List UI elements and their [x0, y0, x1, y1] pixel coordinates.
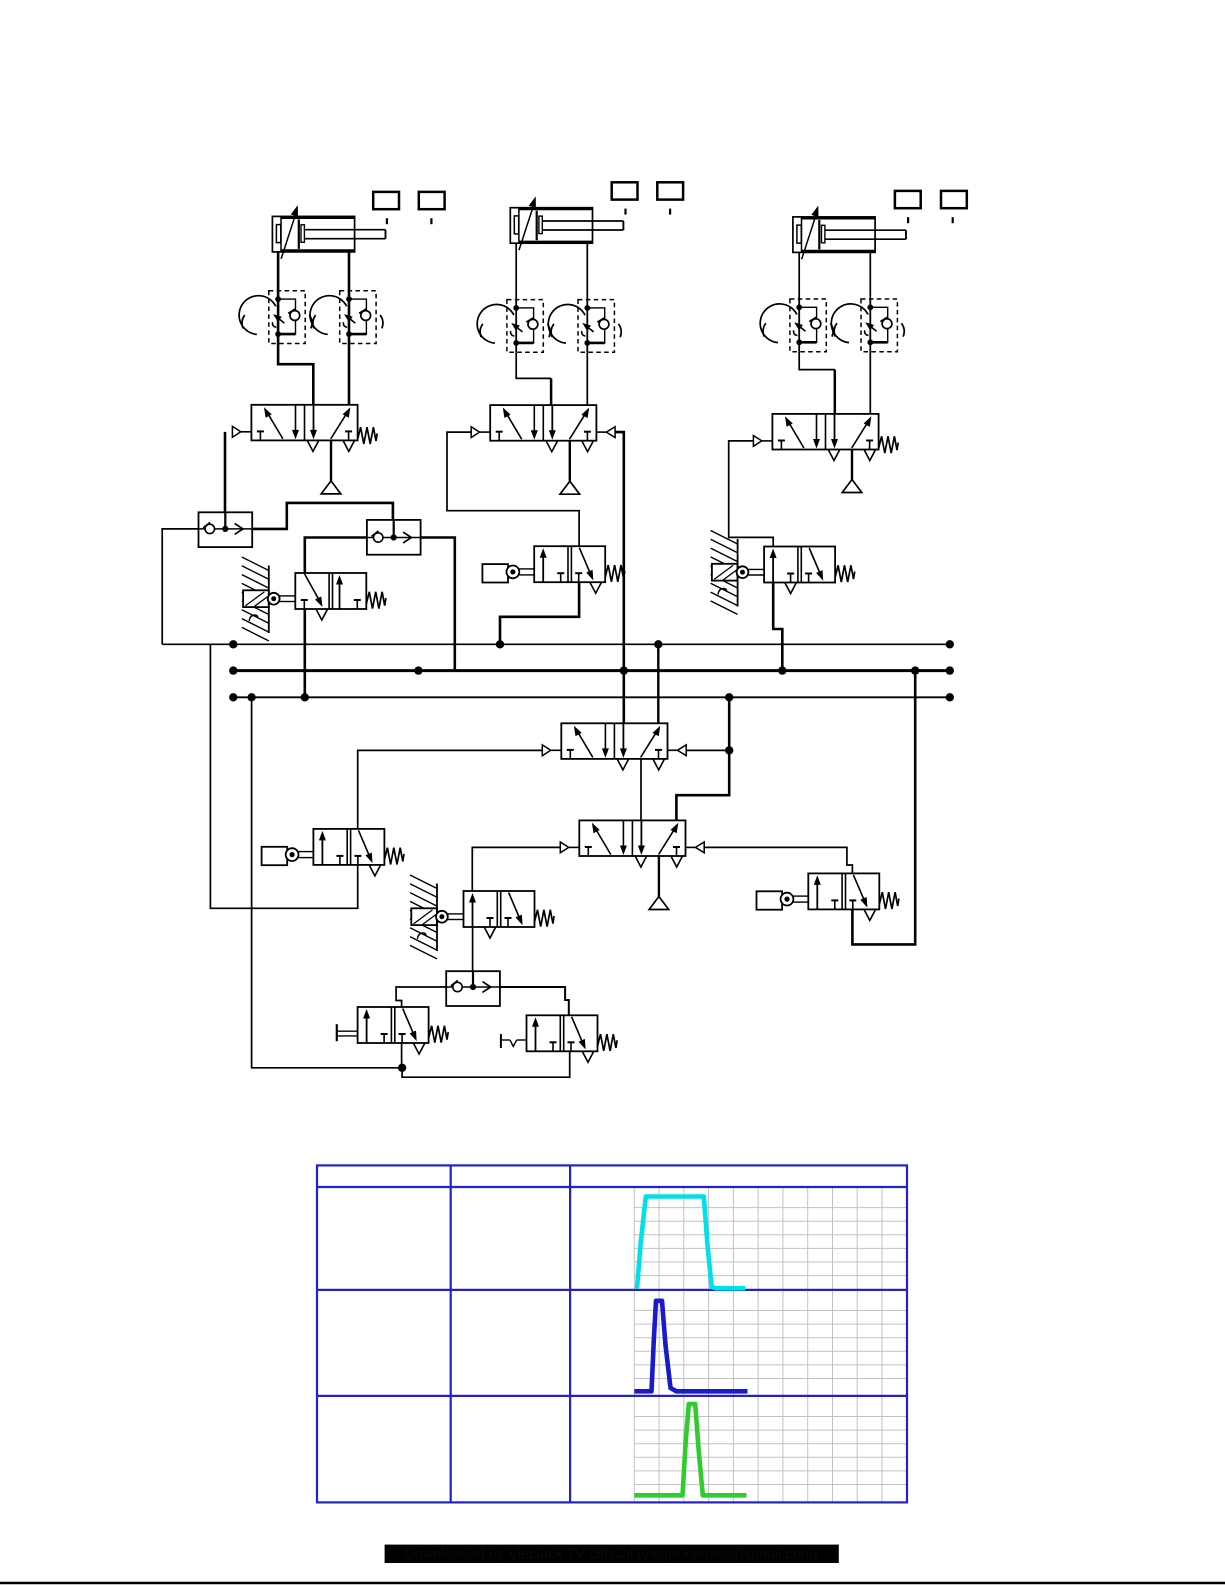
exhaust port valve RS3 — [785, 583, 797, 594]
wire shuttle SH3 left input from valve M1 output — [396, 987, 447, 1007]
plunger actuator valve PS2 — [482, 564, 508, 582]
pilot left valve V5 — [559, 846, 561, 848]
cushioning arrow cylinder C2 — [519, 196, 536, 250]
svg-text:Downloaded by VietJack TV Offi: Downloaded by VietJack TV Official (viet… — [404, 1547, 818, 1563]
pilot left valve V1 — [231, 431, 233, 433]
wire valve LS3 port1 to shuttle SH3 output — [472, 927, 474, 987]
wire supply rail to valve M2 — [402, 1051, 570, 1077]
timing diagram grid — [634, 1187, 907, 1502]
roller actuator valve RS1 — [242, 557, 269, 571]
wire valve PS2 output to valve V2 left pilot — [447, 432, 579, 546]
exhaust ports valve V5 — [635, 856, 647, 867]
shuttle valve SH3 — [446, 971, 500, 1006]
pilot right valve V4 — [677, 745, 686, 756]
return spring valve LS3 — [535, 910, 555, 927]
wire valve V4 port2 to bus line P1 — [657, 644, 659, 723]
junction dots bus P1 — [229, 640, 237, 648]
one-way flow control valve FC2 — [310, 291, 383, 344]
3/2-way valve M1 — [358, 1007, 429, 1043]
return spring valve V1 — [358, 427, 378, 444]
wire valve RS1 supply from bus line P3 — [303, 609, 306, 697]
exhaust port valve PB1 — [369, 865, 381, 876]
supply source valve V2 — [569, 441, 571, 482]
one-way flow control valve FC6 — [831, 299, 904, 352]
wire shuttle SH1 output to valve V1 pilot — [224, 432, 227, 529]
wire valve RS3 output to valve V3 pilot — [729, 441, 774, 547]
wire valve LS3 output to valve V5 left pilot — [472, 847, 560, 891]
return spring valve RS3 — [835, 565, 855, 582]
exhaust ports valve V1 — [307, 440, 319, 451]
wire bus P3 to valve V4 right pilot and valve V5 port2 — [676, 697, 729, 820]
shuttle valve SH1 — [199, 512, 253, 547]
double-acting cylinder C3 — [793, 217, 906, 253]
pilot left valve V3 — [752, 440, 754, 442]
wire valve RS1 output to shuttle SH2 left input — [305, 538, 367, 574]
shuttle valve SH2 — [367, 520, 421, 555]
5/2-way valve V1 — [251, 405, 357, 441]
5/2-way valve V5 — [579, 820, 685, 856]
3/2-way valve PB1 — [313, 829, 384, 865]
return spring valve PB1 — [384, 848, 404, 865]
manual actuator valve M2 — [500, 1034, 502, 1048]
wire cylinder3 port A to valve V3 port4 — [799, 252, 835, 369]
3/2-way valve M2 — [527, 1015, 598, 1051]
5/2-way valve V3 — [772, 414, 878, 450]
wire valve PS2 supply from bus line P1 — [500, 582, 579, 645]
cyan trace cylinder 1 displacement — [637, 1197, 745, 1289]
one-way flow control valve FC3 — [477, 300, 550, 353]
wire cylinder2 port B to valve V2 port2 — [586, 243, 588, 405]
wire valve RS3 supply to bus line P2 — [773, 583, 782, 671]
5/2-way valve V4 — [561, 723, 667, 759]
roller actuator valve LS3 — [410, 875, 437, 889]
return spring valve V3 — [879, 436, 899, 453]
junction dots bus P3 — [229, 693, 237, 701]
exhaust ports valve V4 — [617, 759, 629, 770]
position marker boxes cylinder C1 — [373, 192, 444, 224]
wire valve V2 right pilot to bus P2 and valve V4 port4 — [615, 432, 624, 723]
timing diagram table — [317, 1165, 907, 1502]
one-way flow control valve FC5 — [760, 299, 833, 352]
exhaust port valve RS1 — [316, 609, 328, 620]
5/2-way valve V2 — [490, 405, 596, 441]
wire valve V5 port4 to valve V4 supply port — [640, 759, 642, 820]
3/2-way valve LS3 — [464, 891, 535, 927]
plunger actuator valve PS4 — [757, 891, 783, 909]
return spring valve M2 — [598, 1034, 618, 1051]
bus line P2 — [233, 669, 950, 672]
double-acting cylinder C1 — [272, 216, 385, 252]
supply source valve V3 — [851, 450, 853, 480]
supply source valve V5 — [658, 856, 660, 897]
one-way flow control valve FC1 — [239, 291, 312, 344]
pilot left valve V2 — [470, 431, 472, 433]
wire bus P1 to valve PB1 supply — [210, 644, 357, 908]
cushioning arrow cylinder C1 — [281, 205, 298, 259]
wire cylinder1 port A to valve V1 port4 — [278, 252, 313, 405]
cushioning arrow cylinder C3 — [802, 206, 819, 260]
return spring valve RS1 — [366, 592, 386, 609]
blue trace cylinder 2 displacement — [634, 1301, 747, 1392]
pilot right valve V2 — [606, 427, 615, 438]
pilot right valve V5 — [695, 842, 704, 853]
footer rule — [0, 1582, 1225, 1584]
supply source valve V1 — [330, 440, 332, 481]
redacted watermark bar — [385, 1545, 839, 1563]
wire shuttle SH3 right input from valve M2 output — [499, 987, 569, 1015]
wire shuttle SH2 output to shuttle SH1 right input — [252, 503, 393, 538]
manual actuator valve M1 — [336, 1024, 338, 1041]
position marker boxes cylinder C3 — [895, 191, 967, 223]
return spring valve M1 — [429, 1026, 449, 1043]
exhaust ports valve V3 — [828, 450, 840, 461]
exhaust port valve PS2 — [590, 582, 602, 593]
green trace cylinder 3 displacement — [634, 1404, 746, 1495]
plunger actuator valve PB1 — [262, 847, 288, 865]
position marker boxes cylinder C2 — [612, 182, 683, 214]
bus line P1 — [162, 643, 950, 645]
wire shuttle SH1 left input from bus line P1 — [162, 529, 198, 644]
double-acting cylinder C2 — [510, 208, 623, 244]
3/2-way valve PS2 — [534, 546, 605, 582]
exhaust port valve M1 — [413, 1043, 425, 1054]
timing diagram table frame — [317, 1165, 907, 1502]
bus line P3 — [233, 696, 950, 698]
wire shuttle SH2 right input from bus line P2 — [420, 538, 455, 671]
wire valve V4 right pilot junction — [686, 749, 729, 751]
3/2-way valve RS1 — [295, 573, 366, 609]
roller actuator valve RS3 — [711, 531, 738, 545]
wire valve PB1 output to valve V4 left pilot — [358, 750, 543, 829]
wire valve PS4 supply from bus line P2 — [852, 671, 915, 945]
junction dot valve V4 right pilot — [725, 746, 733, 754]
wire valve M1 supply — [401, 1043, 403, 1068]
wire bus P3 to manual valves supply rail — [252, 697, 403, 1068]
wire cylinder1 port B to valve V1 port2 — [348, 252, 351, 405]
junction dots bus P2 — [229, 666, 237, 674]
exhaust ports valve V2 — [546, 441, 558, 452]
wire valve V5 right pilot to valve PS4 port2 — [704, 847, 852, 873]
exhaust port valve M2 — [582, 1051, 594, 1062]
one-way flow control valve FC4 — [548, 300, 621, 353]
return spring valve PS2 — [605, 565, 625, 582]
wire cylinder3 port B to valve V3 port2 — [869, 252, 871, 414]
3/2-way valve RS3 — [764, 547, 835, 583]
return spring valve PS4 — [879, 892, 899, 909]
pilot left valve V4 — [541, 749, 543, 751]
3/2-way valve PS4 — [808, 873, 879, 909]
junction dot manual supply rail — [398, 1064, 406, 1072]
exhaust port valve LS3 — [484, 927, 496, 938]
exhaust port valve PS4 — [864, 909, 876, 920]
wire cylinder2 port A to valve V2 port4 — [516, 243, 551, 378]
